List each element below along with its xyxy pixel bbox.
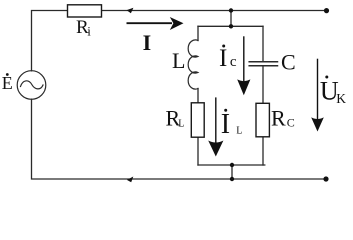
svg-text:L: L xyxy=(236,126,242,137)
svg-text:R: R xyxy=(271,106,286,131)
svg-text:L: L xyxy=(178,119,184,130)
svg-text:c: c xyxy=(230,54,237,70)
svg-text:I: I xyxy=(143,30,152,55)
svg-text:K: K xyxy=(336,91,346,106)
svg-text:C: C xyxy=(287,116,295,130)
svg-text:C: C xyxy=(281,50,296,75)
svg-text:L: L xyxy=(172,48,185,73)
svg-text:i: i xyxy=(87,24,91,39)
svg-text:E: E xyxy=(2,73,13,93)
svg-text:I: I xyxy=(219,45,227,72)
svg-text:I: I xyxy=(221,109,230,140)
